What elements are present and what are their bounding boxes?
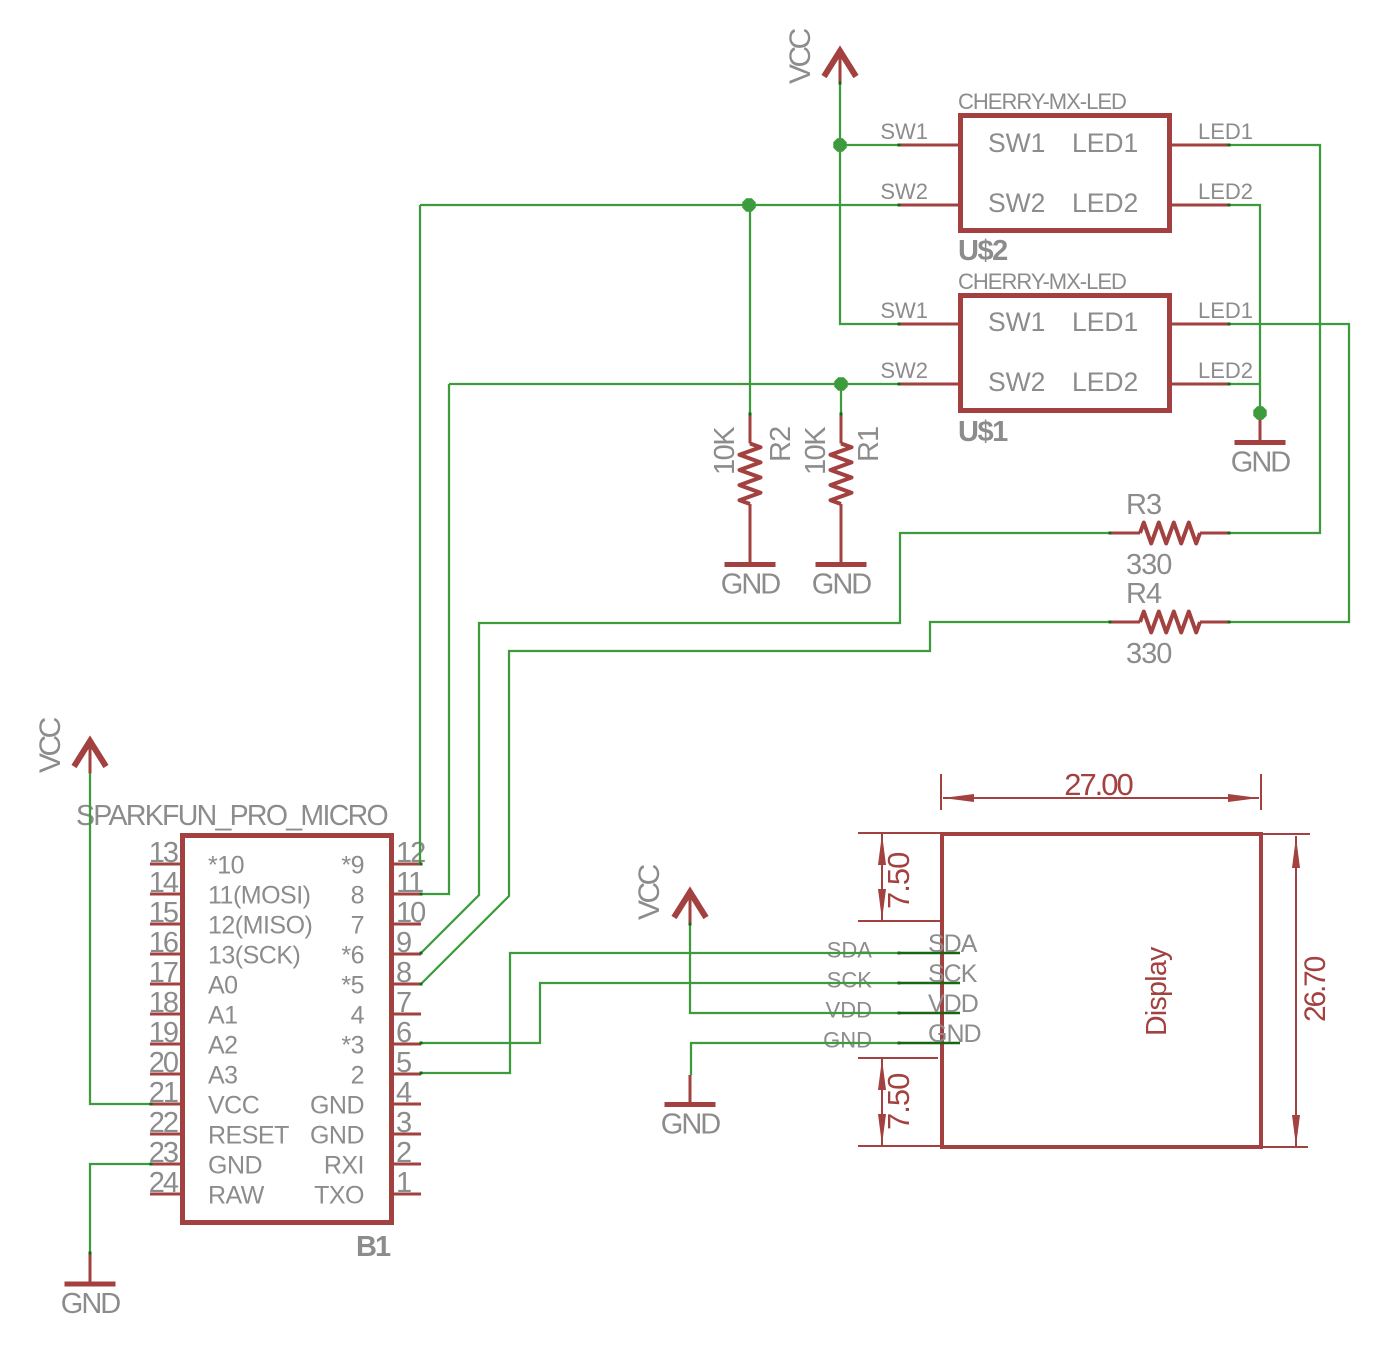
resistor R4 right lead [1200, 621, 1230, 624]
svg-text:RAW: RAW [208, 1182, 265, 1210]
svg-text:21: 21 [149, 1077, 178, 1109]
svg-text:*3: *3 [341, 1032, 364, 1060]
wire pin 6 to display SCK [421, 983, 899, 1043]
svg-text:CHERRY-MX-LED: CHERRY-MX-LED [958, 269, 1126, 294]
pin 13 of B1 (left) [150, 863, 185, 866]
svg-text:RESET: RESET [208, 1122, 289, 1150]
svg-text:GND: GND [1231, 447, 1291, 479]
svg-text:TXO: TXO [314, 1182, 364, 1210]
pin SW1 of U$2 [899, 144, 963, 147]
wire net SW2 U$2 horizontal [420, 204, 899, 206]
pin 11 of B1 (right) [389, 893, 421, 896]
resistor R2 top lead [749, 414, 752, 444]
wire VCC left to pin 21 [90, 773, 150, 1104]
dimension 27.00 extension lines [940, 774, 942, 810]
dimension 7.50 bottom extension lines [858, 1057, 938, 1059]
junction R1 tap on SW2 net [834, 377, 847, 390]
svg-text:18: 18 [149, 987, 178, 1019]
junction at VCC / SW1 net [833, 138, 846, 151]
pin 6 of B1 (right) [389, 1043, 421, 1046]
svg-text:11(MOSI): 11(MOSI) [208, 882, 311, 910]
svg-text:*5: *5 [341, 972, 364, 1000]
pin GND of display [899, 1042, 960, 1045]
svg-text:A2: A2 [208, 1032, 238, 1060]
pin 24 of B1 (left) [150, 1193, 185, 1196]
svg-text:12(MISO): 12(MISO) [208, 912, 312, 940]
dimension 7.50 bottom line [881, 1058, 883, 1146]
svg-text:SW2: SW2 [880, 358, 928, 383]
svg-text:7: 7 [396, 987, 411, 1019]
resistor R3 right lead [1200, 532, 1230, 535]
pin 22 of B1 (left) [150, 1133, 185, 1136]
pin 8 of B1 (right) [389, 983, 421, 986]
resistor R1 top lead [840, 414, 843, 444]
svg-text:U$2: U$2 [958, 235, 1007, 267]
svg-text:A0: A0 [208, 972, 238, 1000]
pin 16 of B1 (left) [150, 953, 185, 956]
wire R3 left to pin 9 [421, 533, 1110, 953]
svg-text:LED2: LED2 [1198, 179, 1253, 204]
pin 23 of B1 (left) [150, 1163, 185, 1166]
svg-text:8: 8 [396, 957, 411, 989]
svg-text:SW2: SW2 [988, 188, 1045, 218]
pin VDD of display [899, 1012, 960, 1015]
wire junction to U$2 SW1 [840, 144, 899, 146]
svg-text:16: 16 [149, 927, 178, 959]
svg-text:LED2: LED2 [1198, 358, 1253, 383]
pin 3 of B1 (right) [389, 1133, 421, 1136]
svg-text:GND: GND [661, 1109, 721, 1141]
svg-text:SW1: SW1 [988, 128, 1045, 158]
power VCC (top) [824, 51, 856, 77]
power VCC (display) [674, 892, 706, 918]
dimension 26.70 line [1295, 836, 1297, 1147]
svg-text:20: 20 [149, 1047, 178, 1079]
svg-text:GND: GND [928, 1020, 981, 1048]
dimension 26.70 extension lines [1263, 833, 1310, 835]
wire U$1 LED1 to R4 right [1229, 324, 1349, 622]
svg-text:LED1: LED1 [1198, 119, 1253, 144]
pin 4 of B1 (right) [389, 1103, 421, 1106]
pin SCK of display [899, 982, 960, 985]
svg-text:*10: *10 [208, 852, 244, 880]
svg-text:SCK: SCK [928, 960, 978, 988]
wire R1 to SW2 net [840, 384, 842, 413]
wire display GND to ground [691, 1043, 899, 1075]
switch/LED module U$1 CHERRY-MX-LED box [961, 296, 1170, 411]
svg-text:13: 13 [149, 837, 178, 869]
svg-text:R4: R4 [1126, 578, 1162, 610]
svg-text:GND: GND [61, 1288, 121, 1320]
svg-text:24: 24 [149, 1167, 179, 1199]
svg-text:9: 9 [396, 927, 411, 959]
pin 14 of B1 (left) [150, 893, 185, 896]
svg-text:SDA: SDA [928, 930, 978, 958]
svg-text:LED2: LED2 [1072, 188, 1138, 218]
wire pin 23 to ground left [90, 1164, 150, 1253]
pin SW2 of U$2 [899, 204, 963, 207]
pin 21 of B1 (left) [150, 1103, 185, 1106]
pin 18 of B1 (left) [150, 1013, 185, 1016]
wire U$2 LED2 down [1229, 205, 1260, 413]
wire pin 5 to display SDA [421, 953, 899, 1073]
svg-text:LED1: LED1 [1198, 298, 1253, 323]
svg-text:17: 17 [149, 957, 178, 989]
svg-text:*6: *6 [341, 942, 364, 970]
svg-text:VDD: VDD [928, 990, 978, 1018]
wire VCC to display VDD [690, 924, 899, 1013]
ground GND stem (display) [689, 1075, 692, 1102]
pin 9 of B1 (right) [389, 953, 421, 956]
svg-text:U$1: U$1 [958, 416, 1008, 448]
svg-text:330: 330 [1126, 549, 1171, 581]
svg-text:B1: B1 [356, 1231, 391, 1263]
svg-text:VDD: VDD [826, 998, 872, 1023]
pin 20 of B1 (left) [150, 1073, 185, 1076]
ground GND (below R1) [816, 562, 867, 567]
svg-text:5: 5 [396, 1047, 411, 1079]
microcontroller B1 SPARKFUN_PRO_MICRO box [183, 836, 392, 1223]
pin 7 of B1 (right) [389, 1013, 421, 1016]
svg-text:VCC: VCC [208, 1092, 260, 1120]
svg-text:RXI: RXI [324, 1152, 364, 1180]
svg-text:SW1: SW1 [880, 298, 928, 323]
svg-text:SDA: SDA [827, 938, 873, 963]
pin LED1 of U$1 [1167, 323, 1230, 326]
svg-text:LED1: LED1 [1072, 128, 1138, 158]
svg-text:SW1: SW1 [988, 307, 1045, 337]
svg-text:330: 330 [1126, 638, 1171, 670]
svg-text:CHERRY-MX-LED: CHERRY-MX-LED [958, 89, 1126, 114]
wire U$2 LED1 to R3 right [1229, 145, 1320, 533]
svg-text:2: 2 [351, 1062, 364, 1090]
dimension 7.50 top line [881, 833, 883, 921]
svg-text:GND: GND [310, 1092, 364, 1120]
svg-text:10K: 10K [709, 426, 741, 475]
wire R4 left to pin 8 [421, 622, 1110, 984]
svg-text:7.50: 7.50 [881, 1073, 916, 1130]
junction LED2 net at GND [1253, 406, 1266, 419]
svg-text:GND: GND [812, 569, 872, 601]
svg-text:A1: A1 [208, 1002, 238, 1030]
svg-text:1: 1 [396, 1167, 411, 1199]
dimension 7.50 top extension lines [858, 832, 941, 834]
svg-text:SCK: SCK [827, 968, 873, 993]
svg-text:13(SCK): 13(SCK) [208, 942, 300, 970]
svg-text:A3: A3 [208, 1062, 238, 1090]
wire net SW2 U$1 to pin 11 [422, 384, 449, 894]
pin 5 of B1 (right) [389, 1073, 421, 1076]
svg-text:23: 23 [149, 1137, 178, 1169]
svg-text:22: 22 [149, 1107, 178, 1139]
svg-text:7: 7 [351, 912, 364, 940]
svg-text:GND: GND [310, 1122, 364, 1150]
svg-text:GND: GND [823, 1028, 872, 1053]
svg-text:4: 4 [396, 1077, 412, 1109]
pin 15 of B1 (left) [150, 923, 185, 926]
resistor R2 bottom lead [749, 504, 752, 563]
svg-text:10K: 10K [800, 426, 832, 475]
svg-text:VCC: VCC [633, 864, 666, 920]
svg-text:LED2: LED2 [1072, 367, 1138, 397]
wire net SW2 U$1 horizontal [449, 383, 899, 385]
svg-text:4: 4 [351, 1002, 365, 1030]
svg-text:R2: R2 [765, 427, 797, 462]
resistor R3 left lead [1109, 532, 1140, 535]
svg-text:GND: GND [208, 1152, 262, 1180]
wire VCC top to U$1 SW1 [840, 83, 899, 324]
svg-text:27.00: 27.00 [1064, 767, 1133, 802]
ground GND (left bottom) [65, 1282, 116, 1287]
svg-text:11: 11 [396, 867, 423, 899]
pin 19 of B1 (left) [150, 1043, 185, 1046]
pin SDA of display [899, 952, 960, 955]
wire U$1 LED2 to GND net [1229, 383, 1259, 385]
resistor R4 body [1140, 612, 1200, 633]
ground GND stem (near U$1) [1259, 413, 1262, 440]
svg-text:10: 10 [396, 897, 425, 929]
dimension 27.00 line [943, 797, 1259, 799]
svg-text:SW2: SW2 [880, 179, 928, 204]
junction R2 tap on SW2 net [742, 198, 755, 211]
pin connection dots [898, 144, 901, 147]
svg-text:SPARKFUN_PRO_MICRO: SPARKFUN_PRO_MICRO [76, 800, 387, 832]
ground GND stem (left bottom) [89, 1253, 92, 1282]
resistor R3 body [1140, 523, 1200, 544]
pin 10 of B1 (right) [389, 923, 421, 926]
svg-text:15: 15 [149, 897, 178, 929]
svg-text:19: 19 [149, 1017, 178, 1049]
svg-text:LED1: LED1 [1072, 307, 1138, 337]
pin 12 of B1 (right) [389, 863, 421, 866]
svg-text:7.50: 7.50 [881, 852, 916, 909]
svg-text:3: 3 [396, 1107, 411, 1139]
svg-text:GND: GND [721, 569, 781, 601]
wire net SW2 U$2 to pin 12 [420, 205, 422, 864]
svg-text:Display: Display [1141, 946, 1173, 1036]
svg-text:6: 6 [396, 1017, 411, 1049]
ground GND (display) [665, 1102, 716, 1107]
svg-text:VCC: VCC [34, 717, 67, 773]
svg-text:SW1: SW1 [880, 119, 928, 144]
svg-text:2: 2 [396, 1137, 411, 1169]
svg-text:26.70: 26.70 [1299, 956, 1332, 1022]
switch/LED module U$2 CHERRY-MX-LED box [961, 116, 1170, 231]
resistor R2 body [740, 444, 761, 505]
pin LED1 of U$2 [1167, 144, 1230, 147]
svg-text:R1: R1 [853, 427, 885, 462]
ground GND (near U$1) [1235, 440, 1286, 445]
power VCC (left) [74, 741, 106, 767]
pin 17 of B1 (left) [150, 983, 185, 986]
resistor R1 body [831, 444, 852, 505]
ground GND (below R2) [725, 562, 776, 567]
svg-text:8: 8 [351, 882, 364, 910]
svg-text:14: 14 [149, 867, 179, 899]
svg-text:*9: *9 [341, 852, 364, 880]
svg-text:R3: R3 [1126, 489, 1161, 521]
pin SW2 of U$1 [899, 383, 963, 386]
pin LED2 of U$1 [1167, 383, 1230, 386]
pin 2 of B1 (right) [389, 1163, 421, 1166]
resistor R4 left lead [1109, 621, 1140, 624]
resistor R1 bottom lead [840, 504, 843, 563]
pin LED2 of U$2 [1167, 204, 1230, 207]
svg-text:SW2: SW2 [988, 367, 1045, 397]
svg-text:VCC: VCC [784, 28, 817, 84]
wire R2 to SW2 net [749, 205, 751, 413]
pin SW1 of U$1 [899, 323, 963, 326]
display module box [942, 834, 1261, 1147]
pin 1 of B1 (right) [389, 1193, 421, 1196]
